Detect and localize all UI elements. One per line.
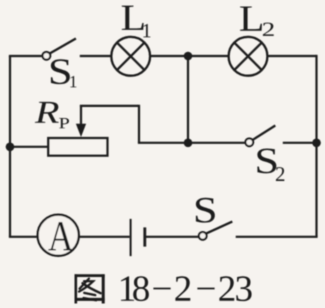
wire top rail segment 1 bbox=[9, 55, 42, 57]
wiper arrow of RP bbox=[76, 105, 86, 137]
wire middle rail (to S2) bbox=[138, 142, 246, 144]
battery short plate (negative) bbox=[143, 227, 146, 246]
caption text 18-2-23 bbox=[121, 276, 252, 301]
switch S2 bbox=[245, 126, 275, 147]
wire bottom rail left (corner to ammeter) bbox=[9, 236, 38, 238]
resistor RP (rheostat body) bbox=[48, 138, 107, 156]
node junction middle rail bbox=[184, 139, 193, 148]
lamp L1 bbox=[111, 37, 150, 76]
label L1 bbox=[122, 6, 151, 38]
wire left rail bbox=[9, 56, 11, 237]
wire bottom rail (ammeter to battery) bbox=[80, 236, 130, 238]
label S1 bbox=[51, 59, 77, 87]
caption character tu (drawn) bbox=[75, 274, 105, 303]
wire middle rail right (S2 to right rail) bbox=[283, 142, 317, 144]
node junction right rail bbox=[312, 139, 321, 148]
wire mid branch from top junction down bbox=[187, 56, 189, 143]
wire wiper horizontal step bbox=[80, 105, 139, 107]
wire step vertical bbox=[138, 105, 140, 143]
wire bottom rail right (corner to switch S) bbox=[236, 236, 318, 238]
node junction on top rail bbox=[184, 52, 193, 61]
wire top rail segment 4 (L2 to corner) bbox=[267, 55, 316, 57]
wire top rail segment 2 (S1 to L1) bbox=[80, 55, 111, 57]
label RP bbox=[35, 102, 69, 128]
label S2 bbox=[257, 149, 284, 181]
switch S1 bbox=[43, 39, 76, 60]
switch S bbox=[199, 222, 233, 240]
battery long plate (positive) bbox=[130, 219, 132, 256]
wire bottom rail (battery to switch S) bbox=[146, 236, 199, 238]
wire top rail segment 3 (L1 to L2) bbox=[150, 55, 228, 57]
label S bbox=[196, 198, 215, 223]
wire rheostat feed from left rail bbox=[10, 146, 49, 148]
wire right rail bbox=[315, 55, 317, 237]
label L2 bbox=[240, 6, 274, 35]
lamp L2 bbox=[229, 37, 268, 76]
ammeter A bbox=[38, 215, 79, 256]
node junction on left rail (rheostat tap) bbox=[6, 143, 15, 152]
